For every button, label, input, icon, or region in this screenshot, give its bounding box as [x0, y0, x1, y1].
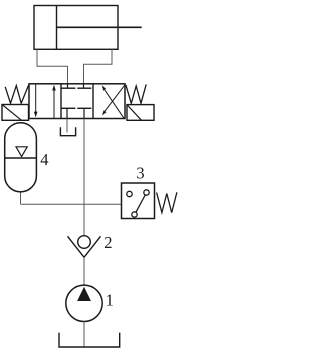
valve left box down arrow	[34, 84, 38, 117]
valve right solenoid	[127, 105, 154, 121]
valve right spring	[126, 84, 146, 103]
pressure switch box U3	[122, 183, 155, 219]
valve box divider left	[60, 84, 62, 119]
valve left spring	[5, 85, 29, 103]
tank symbol at valve	[60, 127, 75, 135]
accumulator separator line	[5, 157, 37, 159]
svg-text:4: 4	[40, 150, 48, 169]
valve box divider right	[92, 84, 94, 119]
valve centre box blocked port top-left	[61, 84, 75, 88]
wire pipe B (cylinder right port to valve port B)	[84, 49, 113, 84]
valve centre box blocked port top-right	[77, 84, 91, 88]
valve left solenoid	[2, 105, 29, 121]
valve body envelope	[29, 84, 125, 119]
cylinder body	[34, 6, 118, 50]
check valve seat V	[68, 236, 101, 257]
svg-text:1: 1	[106, 291, 114, 310]
valve centre box blocked port bottom-right	[77, 108, 91, 118]
tank symbol at pump	[59, 333, 120, 347]
wire pump to tank	[83, 322, 85, 348]
wire main pressure line valve to check valve	[83, 119, 85, 236]
check valve circle	[78, 236, 91, 249]
svg-text:3: 3	[136, 164, 144, 183]
pump triangle	[77, 287, 91, 301]
svg-text:2: 2	[104, 233, 112, 252]
cylinder piston	[56, 6, 58, 50]
valve right box crossed arrow down	[102, 85, 125, 116]
accumulator gas triangle	[16, 147, 27, 157]
valve right box crossed arrow up	[102, 85, 124, 118]
wire check valve to pump	[83, 257, 85, 285]
cylinder rod	[57, 26, 142, 28]
wire accumulator stub	[20, 192, 22, 204]
pressure switch contact circle top-right	[144, 190, 149, 195]
wire pipe A (cylinder left port to valve port A)	[37, 49, 68, 84]
pressure switch lever	[136, 195, 145, 212]
valve left box up arrow	[52, 85, 56, 118]
pressure switch pivot circle bottom	[132, 212, 137, 217]
valve centre box blocked port bottom-left	[61, 108, 75, 118]
wire T port stub	[66, 119, 68, 133]
accumulator shell	[5, 123, 37, 192]
wire branch accumulator to pressure switch	[21, 203, 122, 205]
pump circle	[66, 285, 102, 321]
pressure switch spring	[157, 192, 177, 212]
pressure switch contact circle top-left	[127, 191, 132, 196]
